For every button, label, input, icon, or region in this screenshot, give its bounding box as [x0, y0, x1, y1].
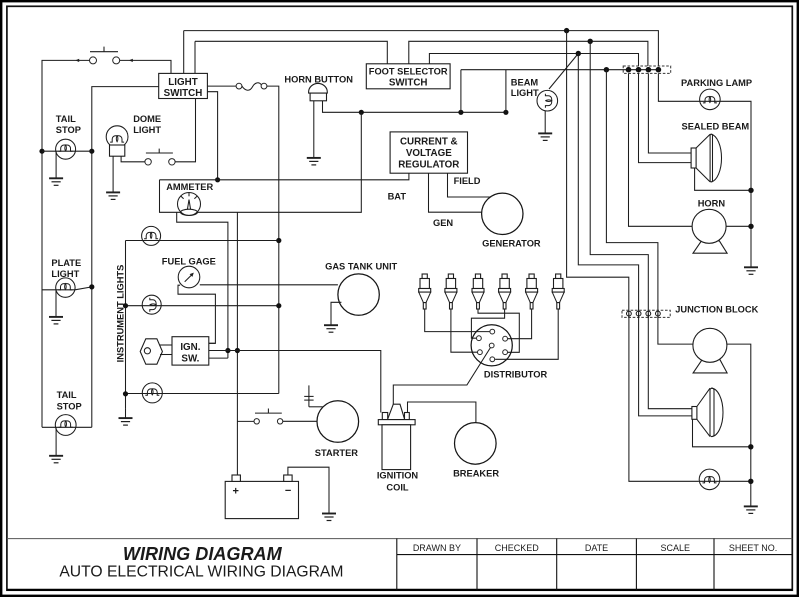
horn button [309, 83, 328, 100]
switch S1 arrow left [75, 59, 79, 62]
distributor [471, 325, 512, 366]
wire: bus1 (light switch to parking lamp circuit) [184, 31, 659, 66]
svg-text:VOLTAGE: VOLTAGE [406, 148, 452, 159]
title block headers [413, 543, 777, 553]
ground (tail stop lower) [55, 427, 57, 456]
box FOOT SELECTOR SWITCH [366, 64, 450, 89]
switch S1 (pushbutton, top-left) [90, 47, 120, 64]
switch (dome light) [145, 149, 175, 165]
lamp PARKING LAMP [700, 89, 721, 110]
lamp instrument light 2 [126, 295, 279, 314]
svg-text:+: + [233, 486, 239, 498]
svg-text:COIL: COIL [386, 483, 409, 493]
wire: horn distribution line to junction blocks [461, 69, 659, 71]
spark plug 1 [419, 274, 431, 309]
sealed beam (upper) [691, 134, 721, 182]
wire: block dot4 down to parking lamp [658, 73, 699, 101]
ground (horn button) [307, 158, 321, 165]
node: right rail at plate light [89, 284, 94, 289]
svg-text:AMMETER: AMMETER [166, 182, 213, 192]
wire: fuel gage to gas tank unit [200, 284, 338, 286]
svg-text:LIGHT: LIGHT [168, 77, 197, 88]
ground (plate light) [55, 290, 57, 317]
lamp DOME LIGHT bulb [106, 126, 128, 156]
wire: bus3 from foot selector [429, 54, 638, 67]
wire: horn to right rail [726, 225, 751, 227]
wire: dome switch to light switch bottom [175, 99, 195, 162]
wire: ign sw lead 3 [209, 357, 228, 359]
wire: feeder from bus2 to junction block dot3 [590, 41, 648, 318]
node: horn line end riser [503, 110, 508, 115]
wire: left rail feed to switch S1 [42, 60, 90, 151]
wire: distributor center to ignition coil tower [393, 348, 490, 405]
svg-text:DRAWN BY: DRAWN BY [413, 543, 461, 553]
ground (instrument lights bus) [119, 418, 133, 425]
svg-text:AUTO ELECTRICAL WIRING DIAGRAM: AUTO ELECTRICAL WIRING DIAGRAM [59, 563, 343, 580]
ground (beam light) [544, 111, 546, 133]
ground (tail stop upper) [55, 151, 57, 178]
svg-text:FIELD: FIELD [454, 176, 481, 186]
node: lamp1 to fuse rail [276, 238, 281, 243]
switch (starter) [254, 409, 283, 424]
key symbol [140, 339, 172, 364]
svg-text:SWITCH: SWITCH [389, 77, 428, 88]
spark plug 3 [472, 274, 484, 309]
wire: ammeter step down to ign switch riser [177, 212, 228, 358]
ammeter [178, 193, 201, 216]
svg-text:GEN: GEN [433, 218, 453, 228]
horn (lower) [693, 328, 727, 373]
wire: light switch second right lead down [207, 92, 217, 180]
svg-text:DISTRIBUTOR: DISTRIBUTOR [484, 370, 548, 380]
starter [317, 401, 359, 443]
box LIGHT SWITCH [159, 73, 208, 99]
svg-text:SW.: SW. [181, 353, 199, 364]
svg-text:CURRENT &: CURRENT & [400, 137, 458, 148]
wire: feeder from bus1 to junction block dot1 [567, 31, 629, 318]
wire: BAT lead [160, 173, 409, 180]
wire: ammeter left edge [160, 180, 181, 213]
wire: fuel gage to ign switch [178, 285, 215, 343]
node: right rail at sealed beam (lower) [748, 444, 753, 449]
wire: feeder from horn line to junction block dot4 [606, 70, 658, 318]
node: bus2 tap [588, 39, 593, 44]
title block column dividers [397, 538, 793, 590]
wire: plug4 around to distributor upper-left post [471, 309, 504, 338]
spark plug 4 [499, 274, 511, 309]
svg-text:SHEET NO.: SHEET NO. [729, 543, 777, 553]
wire: plug6 to distributor bottom post [495, 309, 558, 359]
wire: block dot2 down to sealed beam bottom lead [639, 73, 692, 162]
node: bus1 tap [564, 28, 569, 33]
switch S1 arrow right [129, 59, 133, 62]
svg-text:SCALE: SCALE [660, 543, 690, 553]
svg-text:FOOT SELECTOR: FOOT SELECTOR [369, 67, 448, 77]
svg-text:GENERATOR: GENERATOR [482, 239, 541, 249]
ground (battery) [322, 514, 336, 521]
ground (right rail upper) [744, 267, 758, 274]
svg-text:SWITCH: SWITCH [164, 88, 203, 99]
node: bus at lamp3 [123, 391, 128, 396]
box CURRENT & VOLTAGE REGULATOR [390, 132, 467, 173]
wire: battery riser to starter switch [237, 420, 254, 422]
lamp TAIL STOP (lower) [42, 415, 92, 436]
wire: plug3 around to distributor lower-right post [478, 309, 519, 352]
svg-text:DOME: DOME [133, 114, 161, 124]
node: lamp2 to fuse rail [276, 303, 281, 308]
junction block (top) [623, 66, 671, 73]
title block top line [7, 538, 792, 540]
svg-text:DATE: DATE [585, 543, 608, 553]
svg-text:BAT: BAT [388, 192, 407, 202]
svg-text:INSTRUMENT LIGHTS: INSTRUMENT LIGHTS [116, 265, 126, 363]
node: bus at lamp2 [123, 303, 128, 308]
svg-text:WIRING DIAGRAM: WIRING DIAGRAM [123, 544, 283, 564]
wire: fuse down to instrument lights (fuse rail) [267, 86, 279, 393]
wire: block dot2 down to sealed beam (lower) bottom lead [639, 314, 692, 416]
wire: block dot3 down to sealed beam (lower) top lead [648, 314, 692, 409]
lamp PLATE LIGHT [42, 278, 92, 297]
wire: block dot3 down to sealed beam top lead [648, 73, 691, 153]
svg-text:REGULATOR: REGULATOR [398, 159, 459, 170]
svg-text:CHECKED: CHECKED [495, 543, 540, 553]
wire: plug1 to distributor top post [425, 309, 490, 332]
ground (right rail lower) [744, 506, 758, 513]
node: horn line drop [604, 67, 609, 72]
node: left rail at tail stop [39, 149, 44, 154]
wire: starter switch to starter [283, 420, 317, 422]
horn (upper) [692, 209, 727, 253]
wire: right riser to horn distribution line [505, 70, 507, 113]
node: right rail at tail stop [89, 149, 94, 154]
wire: ign sw lead 1 (to fuel gage riser) [209, 342, 216, 344]
svg-text:STARTER: STARTER [315, 448, 358, 458]
svg-text:IGN.: IGN. [180, 342, 200, 353]
svg-text:PLATE: PLATE [51, 258, 81, 268]
wire: battery negative to ground [288, 467, 329, 513]
svg-text:STOP: STOP [57, 402, 82, 412]
svg-text:STOP: STOP [56, 125, 81, 135]
svg-text:GAS TANK UNIT: GAS TANK UNIT [325, 261, 397, 271]
wire: parking lamp (lower) to right rail [721, 480, 751, 482]
wire: block dot1 down to parking lamp (lower) [629, 314, 699, 482]
wire: feeder from bus3 to junction block dot2 [578, 54, 638, 319]
svg-text:PARKING LAMP: PARKING LAMP [681, 78, 752, 88]
wire: sealed beam bottom to right rail [695, 168, 751, 190]
wire: left rail [41, 151, 43, 427]
node: horn line at ammeter riser [359, 110, 364, 115]
breaker [455, 423, 497, 465]
svg-text:LIGHT: LIGHT [511, 88, 539, 98]
svg-text:JUNCTION BLOCK: JUNCTION BLOCK [675, 305, 758, 315]
gas tank unit [338, 274, 379, 315]
node: right rail at sealed beam [748, 188, 753, 193]
wire: parking lamp to right rail [720, 101, 751, 267]
wire: horn button left leg to ground [313, 101, 315, 158]
wire: horn button feed line [323, 101, 506, 113]
wire: battery riser [236, 212, 238, 475]
svg-text:IGNITION: IGNITION [377, 470, 419, 480]
wire: bus2 right segment from foot selector [409, 41, 648, 66]
wire: block dot1 down to horn [629, 73, 693, 226]
wire: plug2 to distributor lower-left post [451, 309, 477, 352]
wire: sealed beam (lower) bottom to right rail [693, 419, 751, 447]
wire: plug5 to distributor right post [508, 309, 532, 339]
generator [482, 193, 523, 234]
svg-text:−: − [285, 485, 291, 497]
fuel gage [178, 266, 200, 288]
spark plug 5 [526, 274, 538, 309]
svg-text:TAIL: TAIL [56, 114, 76, 124]
fuse F1 [236, 83, 267, 90]
lamp parking (lower) [698, 469, 720, 490]
node: BAT line junction [215, 177, 220, 182]
svg-text:HORN: HORN [698, 198, 726, 208]
wire: horn (lower) to right rail [727, 344, 751, 506]
box IGN. SW. [172, 337, 209, 365]
wire: instrument lights bus [125, 241, 127, 409]
node: horn line at left riser [458, 110, 463, 115]
svg-text:HORN BUTTON: HORN BUTTON [284, 74, 353, 84]
svg-text:BEAM: BEAM [511, 78, 539, 88]
spark plug 2 [445, 274, 457, 309]
node: bus3 tap [576, 51, 581, 56]
spark plug 6 [552, 274, 564, 309]
wire: left riser to horn distribution line [460, 70, 462, 113]
node: ign riser at feed line [225, 348, 230, 353]
svg-text:TAIL: TAIL [57, 390, 77, 400]
sealed beam (lower) [692, 388, 723, 436]
lamp BEAM LIGHT [537, 54, 578, 111]
lamp TAIL STOP (upper) [42, 139, 92, 159]
wire: S1 to light switch top [120, 60, 171, 73]
lamp instrument light 1 [126, 226, 280, 245]
wire: light switch to fuse [207, 85, 236, 87]
wire: coil right bolt to breaker [408, 402, 476, 423]
wire: light switch left feed down right rail [92, 87, 159, 428]
wire: light switch to bus2 [194, 41, 196, 73]
wire: ammeter bus to horn line riser [197, 112, 361, 212]
ground (gas tank unit) [331, 302, 341, 325]
wire: GEN lead [429, 173, 482, 212]
svg-text:SEALED BEAM: SEALED BEAM [682, 122, 750, 132]
wire: light switch to bus1 [183, 31, 185, 74]
wire: ign sw lead 2 (feed to ignition coil) [209, 351, 381, 413]
starter contact symbol [304, 385, 322, 406]
lamp instrument light 3 [126, 383, 279, 403]
wire: dome bulb to dome switch [121, 156, 145, 162]
wire: block dot4 down to horn (lower) [658, 314, 693, 345]
ground (dome light) [112, 156, 114, 192]
node: right rail at parking lamp (lower) [748, 479, 753, 484]
junction block (lower) [622, 310, 670, 317]
svg-text:LIGHT: LIGHT [133, 125, 161, 135]
svg-text:BREAKER: BREAKER [453, 468, 499, 478]
svg-text:LIGHT: LIGHT [51, 269, 79, 279]
wire: bus2 left segment into foot selector [195, 41, 387, 64]
wire: FIELD lead [448, 173, 492, 197]
node: battery riser at feed line [235, 348, 240, 353]
svg-text:FUEL GAGE: FUEL GAGE [162, 256, 216, 266]
node: right rail at horn [748, 224, 753, 229]
